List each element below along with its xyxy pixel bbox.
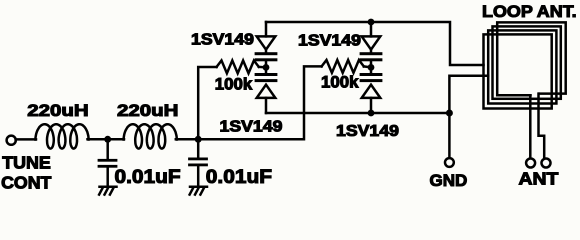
ground symbol at x=198.2 xyxy=(190,187,207,195)
loop antenna turn 1 xyxy=(484,34,552,108)
wire: bottom lead of varactor pair at x=371 xyxy=(370,98,373,113)
wire: top lead of varactor pair at x=266 xyxy=(265,22,268,36)
node: top rail junction at x=371 xyxy=(368,19,375,26)
varactor diode 1SV149 (lower) at x=266 xyxy=(255,73,278,98)
svg-text:LOOP ANT.: LOOP ANT. xyxy=(482,1,577,20)
wire: top lead of varactor pair at x=371 xyxy=(370,22,373,36)
ground symbol at x=107.7 xyxy=(99,187,116,195)
svg-text:ANT: ANT xyxy=(519,168,560,188)
wire: TUNE CONT to L1 xyxy=(16,138,36,141)
wire: bottom lead of varactor pair at x=266 xyxy=(265,98,268,113)
wire: node B to riser for R2 xyxy=(198,66,321,139)
wire: L1 to node A xyxy=(88,138,109,141)
node: GND junction xyxy=(446,110,453,117)
svg-text:0.01uF: 0.01uF xyxy=(206,167,272,188)
capacitor C1 0.01uF plates xyxy=(98,159,118,168)
loop antenna turn 3 xyxy=(493,26,561,98)
loop antenna turn 4 (broken at taps) xyxy=(497,22,566,95)
loop antenna turn 2 xyxy=(488,30,556,103)
wire: node B riser to R1 xyxy=(198,67,216,139)
svg-text:1SV149: 1SV149 xyxy=(191,30,254,48)
wire: bottom rail (varactor bottoms to GND node) xyxy=(266,112,449,115)
wire: R1 to varactor junction xyxy=(259,66,266,69)
wire: L2 to node B xyxy=(176,138,198,141)
node A (junction dot) xyxy=(104,136,111,143)
svg-text:GND: GND xyxy=(430,171,468,190)
svg-text:220uH: 220uH xyxy=(117,101,178,120)
node: bottom rail junction at x=371 xyxy=(368,110,375,117)
svg-text:100k: 100k xyxy=(321,72,359,91)
capacitor C2 0.01uF plates xyxy=(188,158,208,167)
wire: node A down to C1 xyxy=(106,139,109,159)
wire: middle junction stub xyxy=(370,49,373,74)
node B (junction dot) xyxy=(195,136,202,143)
varactor diode 1SV149 (upper) at x=266 xyxy=(255,36,278,61)
inductor L1 220uH xyxy=(35,124,88,148)
terminal ANT 2 (open circle) xyxy=(542,159,551,168)
wire: R2 to varactor junction xyxy=(364,66,371,67)
terminal GND (open circle) xyxy=(445,158,454,167)
varactor diode 1SV149 (upper) at x=371 xyxy=(360,36,383,61)
wire: top rail (varactor tops to loop) xyxy=(266,22,484,65)
varactor diode 1SV149 (lower) at x=371 xyxy=(360,73,383,98)
wire: loop tap 2 (jog) down to ANT terminal xyxy=(539,94,545,158)
svg-text:1SV149: 1SV149 xyxy=(298,31,361,49)
wire: loop tap 1 down to ANT terminal xyxy=(529,95,532,157)
wire: C2 to ground xyxy=(197,166,200,186)
wire: C1 to ground xyxy=(106,168,109,187)
svg-text:1SV149: 1SV149 xyxy=(220,117,283,135)
svg-text:CONT: CONT xyxy=(1,173,52,193)
node: varactor centre junction at x=371 xyxy=(368,64,375,71)
svg-text:0.01uF: 0.01uF xyxy=(115,167,181,188)
resistor R1 100k xyxy=(217,61,259,74)
wire: GND node drop to terminal xyxy=(448,113,451,157)
svg-text:TUNE: TUNE xyxy=(2,153,51,173)
svg-text:100k: 100k xyxy=(215,74,253,93)
terminal TUNE CONT (open circle) xyxy=(7,136,16,145)
wire: node A to L2 xyxy=(108,138,124,141)
terminal ANT 1 (open circle) xyxy=(526,159,535,168)
svg-text:1SV149: 1SV149 xyxy=(336,122,399,140)
node: varactor centre junction at x=266 xyxy=(263,64,270,71)
inductor L2 220uH xyxy=(124,124,177,148)
wire: middle junction stub xyxy=(265,49,268,74)
wire: GND node riser to loop second turn xyxy=(449,76,488,113)
svg-text:220uH: 220uH xyxy=(27,101,88,120)
resistor R2 100k xyxy=(322,60,364,73)
wire: node B down to C2 xyxy=(197,139,200,157)
